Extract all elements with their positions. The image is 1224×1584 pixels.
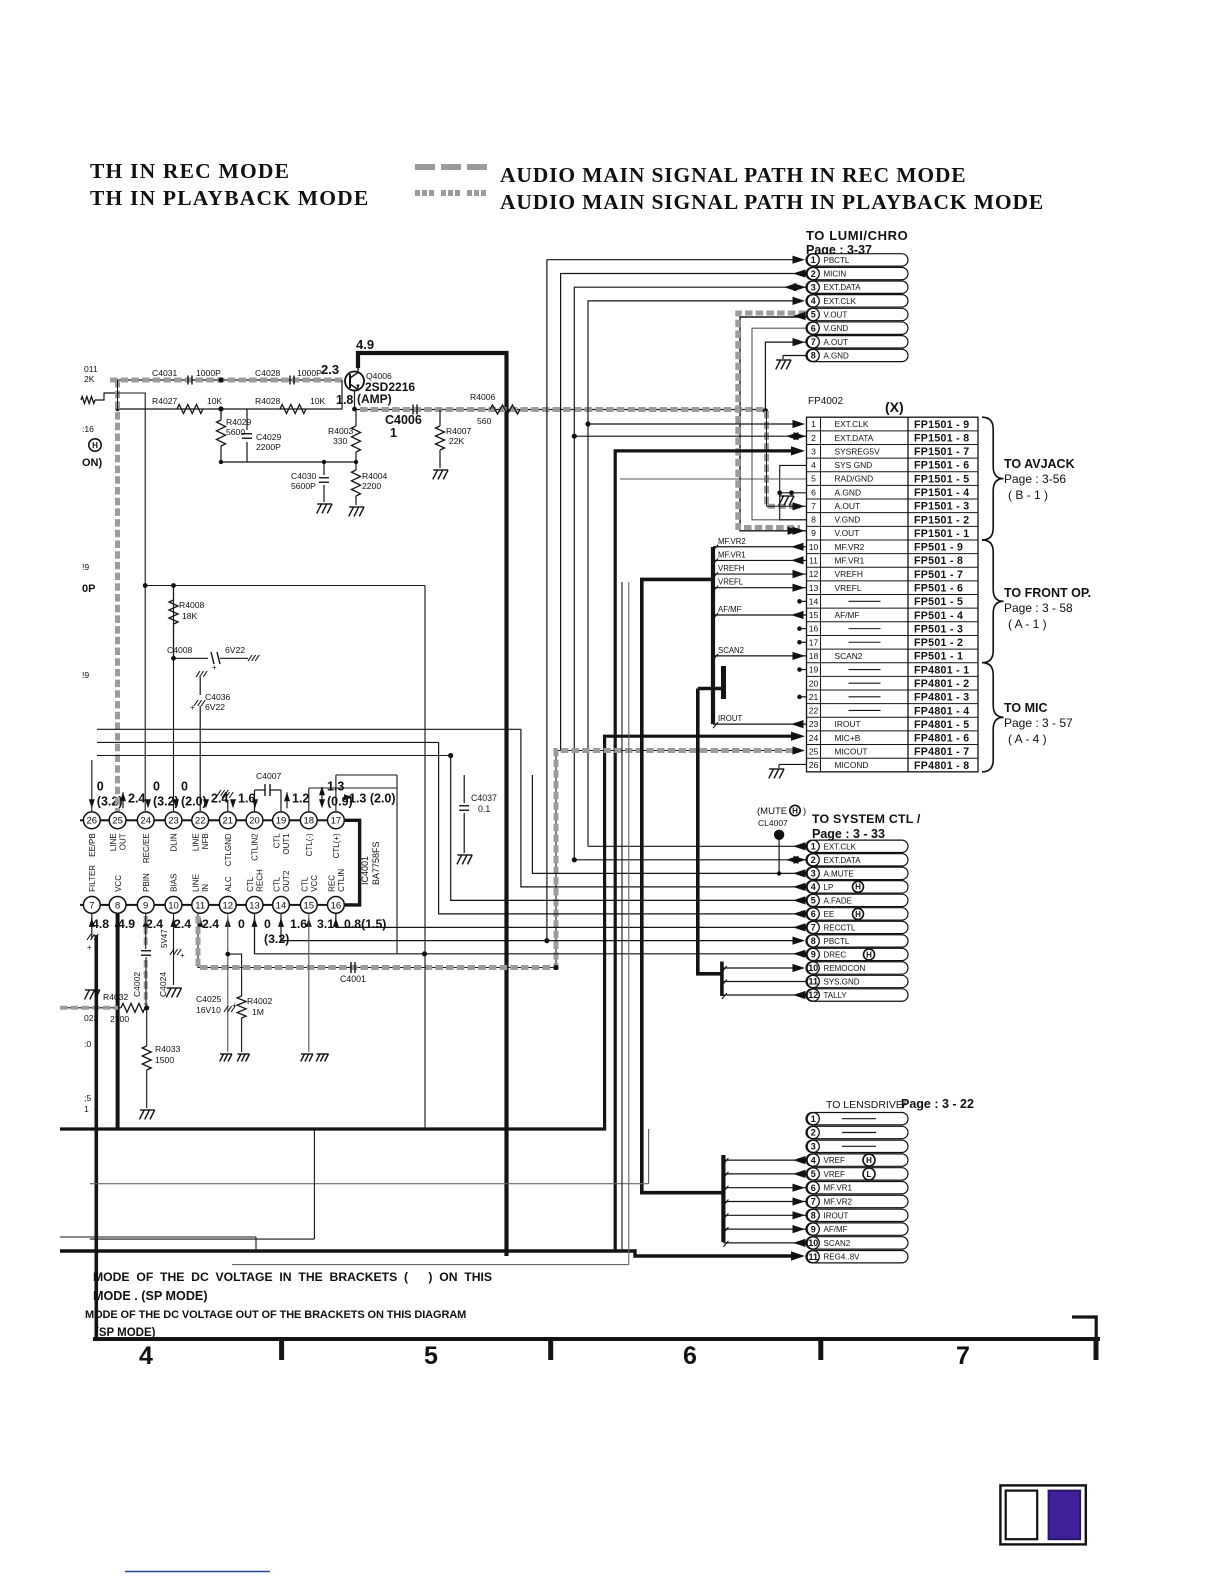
wire EXT.DATA net <box>572 283 806 862</box>
capacitor C4031 1000P <box>152 368 221 385</box>
resistor R4027 10K <box>152 396 223 414</box>
svg-text:6: 6 <box>811 909 816 919</box>
svg-text:VREFL: VREFL <box>718 578 744 587</box>
connector pin 1 PBCTL (LUMI/CHRO) <box>806 254 908 266</box>
svg-text:EXT.CLK: EXT.CLK <box>835 419 869 429</box>
svg-text:RECH: RECH <box>256 869 265 892</box>
svg-text:2.4: 2.4 <box>128 791 145 805</box>
ground CTL VCC pin15 <box>301 914 329 1062</box>
svg-text:3: 3 <box>811 446 816 456</box>
capacitor C4024 5V47 (BIAS) <box>158 914 185 997</box>
wire R4027/R4028 feedback line <box>115 377 342 411</box>
wire bottom-right border corner <box>1072 1317 1096 1338</box>
svg-text:EXT.DATA: EXT.DATA <box>824 283 862 292</box>
svg-text:EXT.CLK: EXT.CLK <box>824 297 857 306</box>
svg-text:FP501 - 3: FP501 - 3 <box>914 623 963 635</box>
wire pin26 vertical <box>91 760 93 811</box>
svg-text:( B - 1 ): ( B - 1 ) <box>1008 488 1048 502</box>
svg-text:R4029: R4029 <box>226 417 252 427</box>
ground pin21 CTLGND <box>222 792 233 811</box>
brace TO AVJACK <box>982 417 1075 540</box>
svg-text:1M: 1M <box>252 1007 264 1017</box>
svg-text:2.4: 2.4 <box>146 917 163 931</box>
svg-text:FP4801 - 7: FP4801 - 7 <box>914 746 969 758</box>
svg-text:20: 20 <box>249 816 260 827</box>
resistor R4028 10K <box>255 396 326 414</box>
svg-text:1000P: 1000P <box>297 368 322 378</box>
svg-text:0: 0 <box>181 779 188 793</box>
svg-text:8: 8 <box>811 936 816 946</box>
svg-text:EE/PB: EE/PB <box>88 833 97 857</box>
svg-text:11: 11 <box>808 977 818 987</box>
wire FP501 signal bus <box>711 547 715 724</box>
svg-text:TO AVJACK: TO AVJACK <box>1004 457 1075 471</box>
FP4002 pin 15 AF/MF <box>809 610 964 622</box>
svg-text:Page : 3 - 57: Page : 3 - 57 <box>1004 716 1073 730</box>
legend dash sample playback mode <box>415 190 487 196</box>
node stub FP4002 pin 14 <box>797 599 806 604</box>
svg-text:5: 5 <box>811 474 816 484</box>
capacitor C4025 16V10 + ALC ground <box>196 914 237 1062</box>
wire V.OUT dashed to FP4002 pin9 arrow <box>788 527 801 535</box>
FP4002 pin 13 VREFL <box>809 583 964 595</box>
svg-text:12: 12 <box>809 569 819 579</box>
svg-text:FP501 - 7: FP501 - 7 <box>914 569 963 581</box>
resistor R4008 18K <box>169 586 205 659</box>
svg-text:6: 6 <box>683 1342 697 1370</box>
svg-text:4.8: 4.8 <box>92 917 109 931</box>
connector pin 4 LP (SYSTEM CTL) <box>806 881 908 893</box>
svg-text:VREFL: VREFL <box>835 583 862 593</box>
svg-text:2700: 2700 <box>110 1014 129 1024</box>
svg-text:A.GND: A.GND <box>824 351 850 360</box>
svg-text:FP1501 - 9: FP1501 - 9 <box>914 419 969 431</box>
svg-text:SCAN2: SCAN2 <box>835 651 863 661</box>
wire VREFL stub to FP4002 pin 13 <box>713 578 806 592</box>
resistor R4003 330 <box>328 409 361 462</box>
brace TO FRONT OP <box>982 540 1091 663</box>
svg-text:FP501 - 9: FP501 - 9 <box>914 542 963 554</box>
svg-text:Page : 3 - 22: Page : 3 - 22 <box>901 1097 974 1111</box>
svg-text:12: 12 <box>223 900 234 911</box>
wire LP net <box>521 729 806 891</box>
node CL4007 MUTE <box>757 805 806 840</box>
capacitor C4037 0.1 <box>457 775 497 864</box>
connector pin 6 MF.VR1 (LENSDRIVE) <box>806 1182 908 1194</box>
IC4001 bottom pin row 7-16 <box>80 865 346 914</box>
connector pin 11 REG4..8V (LENSDRIVE) <box>806 1251 908 1263</box>
svg-text::0: :0 <box>84 1039 91 1049</box>
svg-text:8: 8 <box>811 351 816 361</box>
svg-text:6: 6 <box>811 1183 816 1193</box>
svg-text:TO FRONT OP.: TO FRONT OP. <box>1004 586 1091 600</box>
svg-text:3: 3 <box>811 869 816 879</box>
svg-text:RAD/GND: RAD/GND <box>835 474 874 484</box>
svg-text:(MUTE: (MUTE <box>757 806 787 817</box>
svg-text:15: 15 <box>304 900 315 911</box>
svg-text:MODE . (SP MODE): MODE . (SP MODE) <box>93 1289 208 1303</box>
svg-text:12: 12 <box>808 990 818 1000</box>
wire EE net <box>439 742 806 918</box>
svg-text:IN: IN <box>201 884 210 892</box>
svg-text:1: 1 <box>811 842 816 852</box>
wire MICOUT record path (C4001 net) <box>198 746 805 970</box>
svg-text:TH IN REC MODE: TH IN REC MODE <box>90 159 290 183</box>
svg-text:0.8(1.5): 0.8(1.5) <box>344 917 386 931</box>
wire DLIN pin23 vertical <box>173 586 175 812</box>
svg-text:CL4007: CL4007 <box>758 818 788 828</box>
connector pin 5 V.OUT (LUMI/CHRO) <box>806 308 908 320</box>
svg-text:FP4801 - 1: FP4801 - 1 <box>914 664 969 676</box>
connector pin 10 SCAN2 (LENSDRIVE) <box>806 1237 908 1249</box>
wire emitter audio path <box>352 390 766 411</box>
resistor R4007 22K <box>433 410 472 480</box>
wire A.MUTE net with CL4007 <box>532 775 806 878</box>
svg-text:MF.VR2: MF.VR2 <box>835 542 865 552</box>
svg-text:17: 17 <box>331 816 342 827</box>
svg-text:CTL: CTL <box>273 876 282 892</box>
svg-text:+: + <box>190 703 195 712</box>
FP4002 pin 19 FP4801 - 1 <box>809 664 970 676</box>
svg-text:19: 19 <box>809 665 819 675</box>
svg-text:3: 3 <box>811 1142 816 1152</box>
svg-text:2K: 2K <box>84 374 95 384</box>
svg-text:VCC: VCC <box>114 875 123 892</box>
wire MICOND stub + ground FP4002 pin26 <box>769 764 806 778</box>
svg-text:22: 22 <box>195 816 206 827</box>
svg-text:FP501 - 5: FP501 - 5 <box>914 596 963 608</box>
svg-text:SYS.GND: SYS.GND <box>824 978 860 987</box>
connector pin 6 EE (SYSTEM CTL) <box>806 908 908 920</box>
svg-text:5: 5 <box>811 1169 816 1179</box>
svg-text:H: H <box>866 1156 872 1165</box>
svg-text:Page : 3 - 58: Page : 3 - 58 <box>1004 601 1073 615</box>
FP4002 pin 5 RAD/GND <box>811 473 969 485</box>
FP4002 pin 14 FP501 - 5 <box>809 596 964 608</box>
connector pin 2 EXT.DATA (SYSTEM CTL) <box>806 854 908 866</box>
FP4002 pin 10 MF.VR2 <box>809 542 964 554</box>
svg-text:11: 11 <box>195 900 205 911</box>
FP4002 pin 23 IROUT <box>809 719 970 731</box>
wire stub to LENSDRIVE pin 9 <box>723 1225 806 1233</box>
svg-text:R4028: R4028 <box>255 396 281 406</box>
connector pin 3 nc (LENSDRIVE) <box>806 1140 908 1152</box>
FP4002 pin 11 MF.VR1 <box>809 555 963 567</box>
svg-text:V.OUT: V.OUT <box>824 311 848 320</box>
svg-text:C4007: C4007 <box>256 771 282 781</box>
label fragment 16 H ON (cut) <box>82 424 103 469</box>
svg-text:EXT.DATA: EXT.DATA <box>835 433 874 443</box>
capacitor C4007 <box>255 771 282 811</box>
svg-text:A.OUT: A.OUT <box>835 501 861 511</box>
svg-text:330: 330 <box>333 436 348 446</box>
svg-text:FP1501 - 4: FP1501 - 4 <box>914 487 969 499</box>
ruler grid bar <box>93 1339 1100 1370</box>
svg-text:FP4801 - 6: FP4801 - 6 <box>914 733 969 745</box>
svg-text:;5: ;5 <box>84 1093 91 1103</box>
svg-text:011: 011 <box>84 364 98 374</box>
connector pin 5 A.FADE (SYSTEM CTL) <box>806 894 908 906</box>
wire EXT.CLK to SYSTEM CTL pin1 <box>588 842 806 850</box>
svg-text:EE: EE <box>824 910 835 919</box>
svg-text:7: 7 <box>811 1197 816 1207</box>
svg-text:7: 7 <box>811 501 816 511</box>
wire bottom-mid horizontals <box>60 582 649 1265</box>
svg-text:ON): ON) <box>82 457 103 469</box>
label fragment 4023 (cut) <box>84 1013 99 1023</box>
wire RECCTL net <box>336 914 806 932</box>
connector pin 1 EXT.CLK (SYSTEM CTL) <box>806 840 908 852</box>
svg-text:1: 1 <box>84 1104 89 1114</box>
svg-text:023: 023 <box>84 1013 99 1023</box>
wire stub to LENSDRIVE pin 4 <box>723 1156 806 1164</box>
label fragment 0 (cut) <box>84 1039 91 1049</box>
capacitor C4001 <box>340 962 366 984</box>
wire stub to LENSDRIVE pin 10 <box>723 1239 806 1247</box>
svg-text:2.3: 2.3 <box>321 362 339 377</box>
svg-text:+: + <box>180 951 185 960</box>
svg-text:25: 25 <box>809 746 819 756</box>
wire pin24/pin23 top rail <box>118 393 426 1129</box>
svg-text:10K: 10K <box>207 396 223 406</box>
svg-text:4.9: 4.9 <box>118 917 135 931</box>
connector pin 9 AF/MF (LENSDRIVE) <box>806 1223 908 1235</box>
svg-text:5600P: 5600P <box>291 481 316 491</box>
svg-text:MF.VR2: MF.VR2 <box>824 1198 853 1207</box>
capacitor C4029 2200P <box>242 409 282 462</box>
svg-text:3.1: 3.1 <box>317 917 334 931</box>
wire EXT.CLK to FP4002 pin1 <box>588 420 805 428</box>
connector pin 8 IROUT (LENSDRIVE) <box>806 1209 908 1221</box>
svg-text:MODE OF THE DC VOLTAGE IN: MODE OF THE DC VOLTAGE IN THE BRACKETS (… <box>93 1270 492 1284</box>
svg-text:16: 16 <box>809 624 819 634</box>
brace TO MIC <box>982 663 1073 772</box>
svg-text:7: 7 <box>811 337 816 347</box>
resistor R4029 5600 <box>217 409 252 462</box>
svg-text:R4004: R4004 <box>362 471 388 481</box>
svg-text:1000P: 1000P <box>196 368 221 378</box>
FP4002 pin 24 MIC+B <box>809 733 970 745</box>
wire AF/MF stub to FP4002 pin 15 <box>713 605 806 619</box>
IC4001 pin17-pin16 bracket wire <box>345 820 360 905</box>
connector pin 1 nc (LENSDRIVE) <box>806 1113 908 1125</box>
svg-text:A.OUT: A.OUT <box>824 338 849 347</box>
svg-text:C4031: C4031 <box>152 368 178 378</box>
svg-text:MF.VR1: MF.VR1 <box>718 550 746 559</box>
FP4002 pin 6 A.GND <box>811 487 969 499</box>
svg-text:13: 13 <box>809 583 819 593</box>
wire IROUT stub to FP4002 pin 23 <box>713 714 806 728</box>
node stub FP4002 pin 17 <box>797 640 806 645</box>
svg-text:H: H <box>855 910 861 919</box>
svg-text:R4003: R4003 <box>328 426 354 436</box>
svg-text:FP1501 - 3: FP1501 - 3 <box>914 501 969 513</box>
svg-text:10: 10 <box>808 963 818 973</box>
svg-text:16V10: 16V10 <box>196 1005 221 1015</box>
wire CTL(-) CTL(+) tops <box>309 775 397 954</box>
color registration box <box>1000 1485 1085 1544</box>
svg-text:(X): (X) <box>885 399 904 415</box>
capacitor C4006 1 <box>385 405 422 441</box>
wire A.GND + ground <box>776 356 806 370</box>
svg-text:9: 9 <box>143 900 148 911</box>
node base 2.3V <box>321 362 339 377</box>
legend text signal path headers <box>90 159 1044 214</box>
svg-text:VREF: VREF <box>824 1156 845 1165</box>
wire MF.VR1 stub to FP4002 pin 11 <box>713 550 806 564</box>
wire MF.VR2 stub to FP4002 pin 10 <box>713 537 806 551</box>
svg-text:IC4001: IC4001 <box>360 856 370 885</box>
resistor R4032 2700 + playback path <box>60 992 149 1024</box>
svg-text:FP1501 - 1: FP1501 - 1 <box>914 528 969 540</box>
svg-text:10K: 10K <box>310 396 326 406</box>
wire RAD/GND to FP4002 pin5 <box>620 478 806 480</box>
svg-text:R4027: R4027 <box>152 396 178 406</box>
svg-text:5600: 5600 <box>226 427 245 437</box>
node stub FP4002 pin 19 <box>797 667 806 672</box>
svg-text:14: 14 <box>276 900 287 911</box>
svg-text:0P: 0P <box>82 583 95 595</box>
svg-text:EXT.CLK: EXT.CLK <box>824 842 857 851</box>
svg-text:(AMP): (AMP) <box>357 392 392 406</box>
svg-text:7: 7 <box>811 923 816 933</box>
svg-text:H: H <box>855 883 861 892</box>
node stub FP4002 pin 21 <box>797 695 806 700</box>
svg-text:H: H <box>866 950 872 959</box>
svg-text:CTL(-): CTL(-) <box>305 833 314 856</box>
resistor fragment 2K (cut at page edge) <box>81 364 118 404</box>
svg-text::16: :16 <box>82 424 94 434</box>
blue footer line <box>125 1571 270 1573</box>
svg-text:11: 11 <box>809 556 818 566</box>
voltage labels IC4001 bottom row <box>89 917 387 946</box>
svg-text:V.OUT: V.OUT <box>835 528 860 538</box>
FP4002 pin 7 A.OUT <box>811 501 969 513</box>
svg-text:6: 6 <box>811 487 816 497</box>
svg-text:25: 25 <box>112 816 123 827</box>
wire SCAN2 stub to FP4002 pin 18 <box>713 646 806 660</box>
wire harness T-bar FP4801 rows <box>698 666 724 699</box>
capacitor C4008 6V22 <box>167 645 259 672</box>
wire stub to LENSDRIVE pin 5 <box>723 1170 806 1178</box>
svg-text:1.8: 1.8 <box>336 393 353 407</box>
svg-text:8: 8 <box>115 900 120 911</box>
svg-text:DLIN: DLIN <box>170 833 179 851</box>
svg-text:1: 1 <box>811 1114 816 1124</box>
svg-text:FP501 - 4: FP501 - 4 <box>914 610 963 622</box>
svg-text:Page : 3-56: Page : 3-56 <box>1004 472 1066 486</box>
svg-text:AUDIO MAIN SIGNAL PATH IN REC: AUDIO MAIN SIGNAL PATH IN REC MODE <box>500 163 967 187</box>
svg-text:C4002: C4002 <box>132 972 142 997</box>
svg-text:9: 9 <box>811 1224 816 1234</box>
voltage labels IC4001 top row <box>89 779 396 808</box>
FP4002 pin 22 FP4801 - 4 <box>809 705 970 717</box>
svg-text:FP4801 - 3: FP4801 - 3 <box>914 692 969 704</box>
FP4002 pin 18 SCAN2 <box>809 651 964 663</box>
svg-text:EXT.DATA: EXT.DATA <box>824 856 862 865</box>
svg-text:FP1501 - 7: FP1501 - 7 <box>914 446 969 458</box>
wire EXT.DATA to FP4002 pin2 <box>574 432 806 440</box>
wire V.GND <box>752 328 806 520</box>
wire audio playback path top (C4031/C4028 line) <box>110 379 342 381</box>
FP4002 pin 2 EXT.DATA <box>811 432 969 444</box>
svg-text:BA7758FS: BA7758FS <box>371 841 381 885</box>
svg-text:REG4..8V: REG4..8V <box>824 1253 861 1262</box>
svg-text:CTL(+): CTL(+) <box>332 833 341 858</box>
svg-text:5V47: 5V47 <box>160 929 169 948</box>
FP4002 pin 4 SYS GND <box>811 460 969 472</box>
wire A.FADE net <box>448 753 806 905</box>
svg-text:C4008: C4008 <box>167 645 193 655</box>
connector pin 6 V.GND (LUMI/CHRO) <box>806 322 908 334</box>
svg-text:REMOCON: REMOCON <box>824 964 866 973</box>
FP4002 pin 20 FP4801 - 2 <box>809 678 970 690</box>
svg-text:23: 23 <box>168 816 179 827</box>
wire EXT.CLK net <box>585 297 805 847</box>
svg-text:0: 0 <box>238 917 245 931</box>
svg-text:1.6: 1.6 <box>238 791 255 805</box>
svg-text:IROUT: IROUT <box>835 719 861 729</box>
svg-text:C4029: C4029 <box>256 432 282 442</box>
FP4002 pin 25 MICOUT <box>809 746 970 758</box>
svg-text:16: 16 <box>331 900 342 911</box>
FP4002 pin 1 EXT.CLK <box>811 419 969 431</box>
svg-text:1.6: 1.6 <box>290 917 307 931</box>
svg-text:C4037: C4037 <box>471 793 497 803</box>
svg-text:): ) <box>803 806 806 817</box>
svg-text:0.1: 0.1 <box>478 804 490 814</box>
svg-text:7: 7 <box>956 1342 970 1370</box>
svg-text:FP501 - 8: FP501 - 8 <box>914 555 963 567</box>
svg-text:( A - 1 ): ( A - 1 ) <box>1008 617 1047 631</box>
connector table FP4002 grid <box>807 417 979 772</box>
svg-text:MF.VR1: MF.VR1 <box>835 556 865 566</box>
wire MICIN net <box>561 269 806 750</box>
svg-text:CTL: CTL <box>246 876 255 892</box>
svg-text:PBCTL: PBCTL <box>824 937 850 946</box>
wire A.OUT net <box>763 338 806 510</box>
svg-text:1: 1 <box>811 419 816 429</box>
svg-text:24: 24 <box>809 733 819 743</box>
svg-text:3: 3 <box>811 282 816 292</box>
svg-text:2: 2 <box>811 433 816 443</box>
svg-text:2: 2 <box>811 855 816 865</box>
svg-text:CTLIN2: CTLIN2 <box>251 833 260 861</box>
svg-text:2: 2 <box>811 269 816 279</box>
svg-text:R4032: R4032 <box>103 992 129 1002</box>
svg-text:TO MIC: TO MIC <box>1004 701 1048 715</box>
svg-text:IROUT: IROUT <box>718 714 742 723</box>
svg-text:6V22: 6V22 <box>225 645 245 655</box>
svg-text:4: 4 <box>811 460 816 470</box>
svg-text:V.GND: V.GND <box>835 515 861 525</box>
label fragment 19 / 0P (cut) <box>82 562 95 595</box>
svg-text:15: 15 <box>809 610 819 620</box>
svg-text:FP1501 - 8: FP1501 - 8 <box>914 432 969 444</box>
wire SYSTEM CTL pills 10-12 bus <box>722 962 806 1000</box>
svg-text:REC/EE: REC/EE <box>142 833 151 863</box>
connector pin 7 A.OUT (LUMI/CHRO) <box>806 336 908 348</box>
wire collector 4.9V supply <box>356 337 507 1256</box>
label fragment 19 (cut) <box>82 670 89 680</box>
connector block TO LENSDRIVE title <box>826 1097 974 1111</box>
svg-text:FP501 - 1: FP501 - 1 <box>914 651 963 663</box>
svg-text:FP501 - 6: FP501 - 6 <box>914 583 963 595</box>
svg-text:19: 19 <box>276 816 287 827</box>
FP4002 pin 3 SYSREG5V <box>811 446 969 458</box>
svg-text:AF/MF: AF/MF <box>824 1225 848 1234</box>
svg-text:RECCTL: RECCTL <box>824 923 857 932</box>
